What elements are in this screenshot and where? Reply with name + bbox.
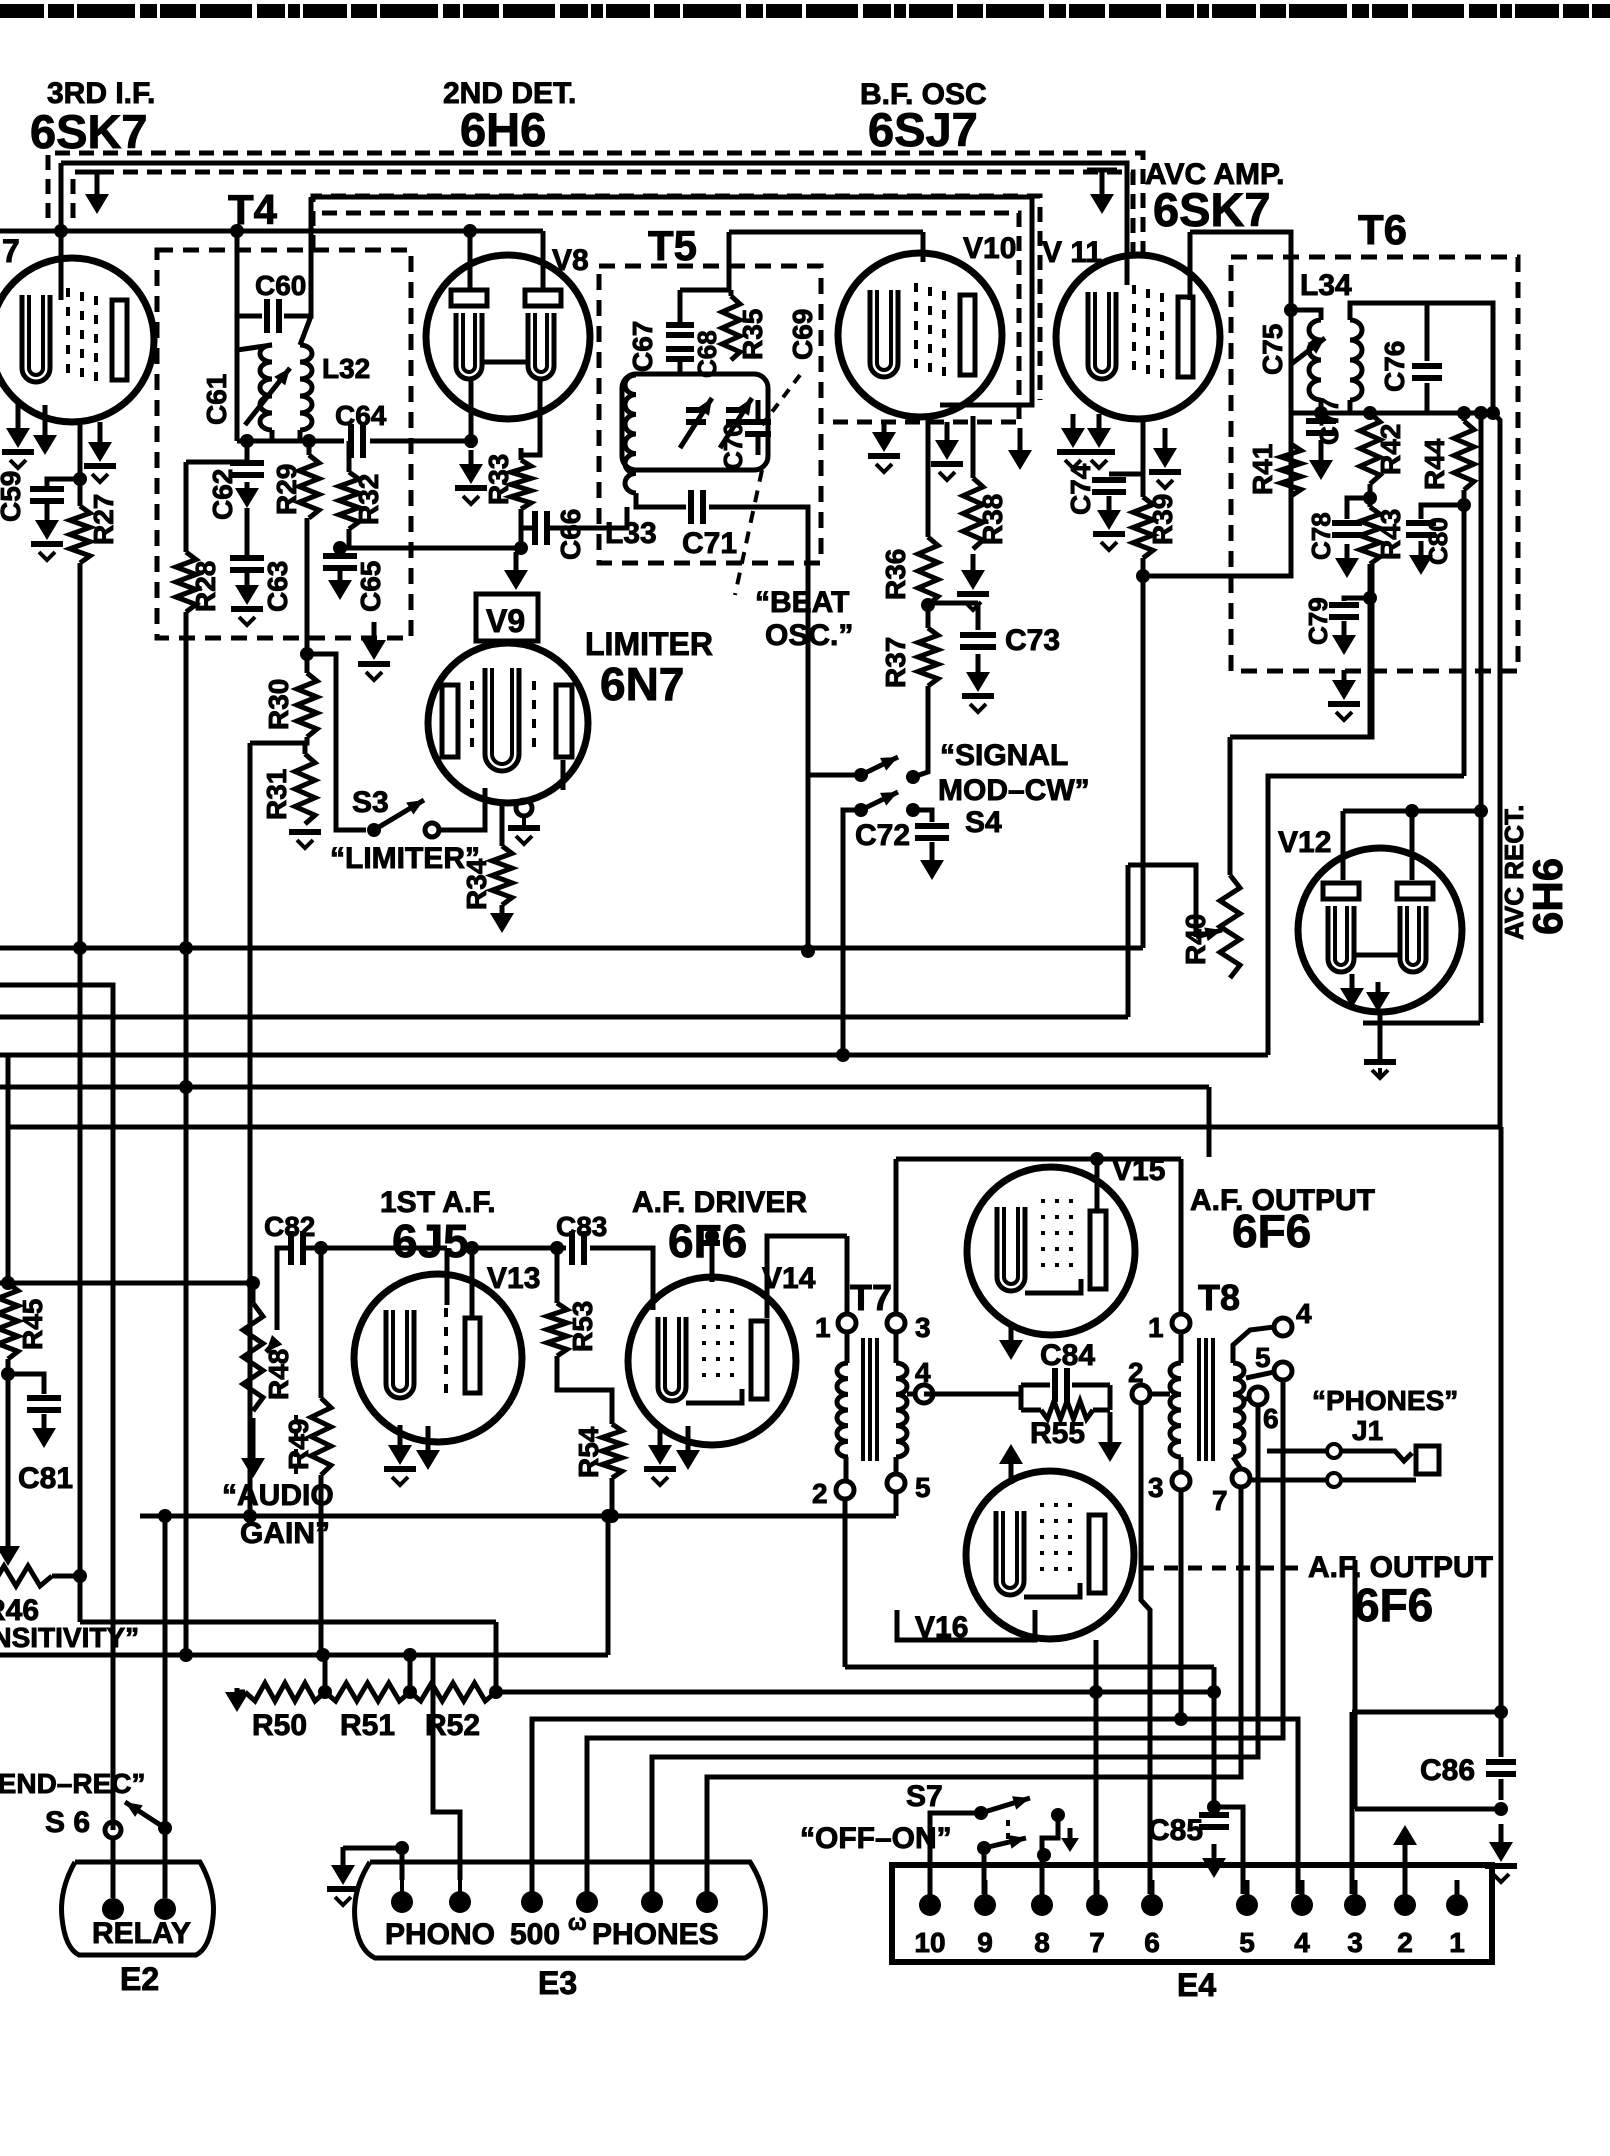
wire V7 cathode [78,422,83,479]
label C75 [1257,324,1288,375]
svg-text:2: 2 [1397,1927,1413,1958]
label C63 [262,561,293,612]
label 6J5 [392,1215,469,1267]
wire R45 bottom [6,1359,11,1374]
label C61 [201,374,232,425]
svg-text:1: 1 [1449,1927,1465,1958]
E4 pin 1 [1446,1880,1468,1916]
shield dashed bottom V10 [833,420,1019,425]
wire J1 tip [1267,1449,1328,1454]
arrow R48 bottom [241,1418,265,1478]
junction 1692 [1089,1685,1221,1699]
wire C66 to T5 [560,507,627,528]
junction R45 top [1,1276,15,1290]
svg-text:T8: T8 [1198,1277,1240,1318]
svg-text:S3: S3 [352,786,389,819]
E4 pin 2 [1394,1880,1416,1916]
audio gain line [0,1653,608,1658]
resistor R27 [70,479,90,563]
wire L32 tops [237,316,311,350]
variable cap C75 arrow [1290,338,1325,365]
arrow C81 [32,1414,56,1448]
svg-text:C86: C86 [1420,1754,1475,1787]
ground E3 [327,1847,402,1905]
inductor L32 right coil [300,345,312,430]
label C65 [355,561,386,612]
shield dashed line second [73,172,1133,258]
label T7 [850,1277,892,1318]
svg-text:RELAY: RELAY [92,1917,191,1950]
label E2 [120,1961,159,1997]
switch S4 upper contact [906,770,920,784]
svg-text:S 6: S 6 [45,1806,90,1839]
inductor T8 primary [1170,1363,1181,1457]
junction T4 plate [230,224,244,238]
J1 body [1416,1446,1439,1474]
svg-text:MOD–CW”: MOD–CW” [938,774,1090,807]
wire R41 col [1289,413,1294,444]
label A.F. OUTPUT [1190,1184,1375,1217]
wire R37 to S4 contact [913,686,928,777]
label R46 [0,1594,39,1627]
wire V12 cathode down [1378,1012,1383,1060]
arrow E4 pin2 up [1393,1825,1417,1845]
T8 pin2 circle [1132,1385,1150,1403]
svg-text:R45: R45 [17,1299,48,1350]
terminal strip E4 box [892,1865,1492,1962]
wire L32 bottoms [272,430,300,441]
label C73 [1005,624,1060,657]
svg-text:R48: R48 [263,1349,294,1400]
svg-text:C63: C63 [262,561,293,612]
wire V8 right cathode [521,379,540,455]
wire V13 grid [445,1248,450,1305]
junction S4 bus4 [836,1048,850,1062]
shield dashed line outer [48,153,1143,258]
label E4 pin 9 [977,1927,993,1958]
wire T5 top [729,230,923,235]
label L32 [322,353,370,384]
shield box T4 dashed [157,250,411,638]
svg-text:C65: C65 [355,561,386,612]
wire R50R51 up [323,1655,328,1692]
svg-text:5: 5 [915,1472,931,1503]
wire R29-R30 [305,518,310,673]
label C77 [1314,397,1344,445]
svg-text:7: 7 [1089,1927,1105,1958]
V9 bottom pin [516,800,532,816]
ground C59 [31,498,63,560]
tube V8 6H6 [426,255,590,419]
label T7 pin1 [815,1312,831,1343]
capacitor C63 [230,558,264,570]
svg-text:“SEND–REC”: “SEND–REC” [0,1768,145,1799]
arrow V11 c [1149,428,1181,488]
svg-text:C73: C73 [1005,624,1060,657]
J1 sleeve contact [1327,1473,1341,1487]
svg-text:J1: J1 [1352,1415,1383,1446]
svg-text:C70: C70 [718,422,748,470]
wire 1283 line [0,1281,253,1286]
capacitor C60 [267,299,279,333]
inductor L33 [625,375,636,493]
wire L34 right top [1350,303,1493,413]
svg-text:R27: R27 [88,494,119,545]
junction gain dots [179,1648,330,1662]
resistor R52 [410,1683,496,1701]
svg-text:7: 7 [2,233,20,269]
wire T7 pin2 lead [844,1457,849,1481]
label T4 [228,186,278,233]
node C62 top [240,434,254,448]
svg-text:S7: S7 [906,1780,943,1813]
svg-text:R41: R41 [1247,444,1278,495]
label R42 [1375,424,1406,475]
junction V8 plate feed [463,224,477,238]
switch S7 lower pivot [977,1841,991,1855]
bus line 4 [0,1053,1268,1058]
wire R51R52 up [403,1648,417,1692]
wire C83 to V14 grid [590,1248,653,1310]
capacitor C85 [1199,1815,1229,1827]
wire T6 node bus [1291,411,1493,416]
resistor R32 [339,441,359,529]
ground V13 cath b [416,1426,440,1470]
svg-text:C67: C67 [627,321,658,372]
combo right [1108,1385,1113,1410]
label R50 [252,1709,307,1742]
label R28 [190,561,221,612]
ground V13 cath a [384,1425,416,1485]
wire S7 contact to pin8 [1042,1815,1058,1894]
svg-text:C69: C69 [787,309,818,360]
wire S7 lower to pin9 [982,1848,987,1894]
T8 pin6 circle [1249,1387,1267,1405]
svg-text:C75: C75 [1257,324,1288,375]
wire sens drop [494,1622,499,1692]
label R29 [271,464,302,515]
line 1777 [707,1487,1241,1902]
wire bus3 riser [1126,865,1131,1017]
arrow near R38 top [1008,428,1032,470]
svg-text:“SENSITIVITY”: “SENSITIVITY” [0,1622,139,1653]
inductor L34 left coil [1309,320,1321,400]
capacitor C72 [913,810,949,838]
svg-text:R28: R28 [190,561,221,612]
wire pin2 arrow stem [1403,1845,1408,1894]
switch S6 contact [105,1822,121,1838]
svg-text:6N7: 6N7 [600,658,684,710]
wire T4 top feed [311,195,1032,200]
svg-text:V13: V13 [487,1262,540,1295]
svg-text:8: 8 [1034,1927,1050,1958]
resistor R50 [245,1683,325,1701]
ground arrows V12 cath [1340,974,1390,1012]
label 6H6 V12 [1524,858,1571,935]
switch S4 lower arm [861,792,898,810]
resistor R38 [963,416,983,549]
label R44 [1419,438,1450,490]
ground arrow below T4 [373,441,375,632]
dashed callout C69 [762,375,800,425]
junction R48 top [246,1276,260,1290]
label R43 [1375,509,1406,560]
switch S4 upper arm [861,757,898,775]
dashed gang link [294,1415,298,1478]
label LIMITER quoted [330,842,480,875]
label SENSITIVITY [0,1622,139,1653]
label LIMITER [585,626,713,662]
label C74 [1065,463,1096,515]
arrow C85 [1202,1844,1226,1878]
wire V7 grid inside [59,258,64,300]
label 3RD I.F. [47,77,155,110]
wire to C81 [8,1374,44,1394]
junction S4 bus1 [801,944,815,958]
ground C73 [962,654,994,712]
label PHONES [1312,1385,1458,1416]
wire V8 left cathode [469,379,474,448]
capacitor C83 [572,1231,584,1265]
label C76 [1379,341,1410,392]
wire V10 cathode to R36 [926,420,931,537]
label C64 [335,400,387,431]
wire J1 sleeve [1248,1478,1328,1483]
E3 pin 6 [696,1880,718,1913]
wire T7 pin1 lead [845,1332,850,1363]
svg-text:3: 3 [1148,1472,1164,1503]
label V16 [915,1611,968,1644]
label C66 [555,509,586,560]
wire V11 plate lead [1188,232,1193,300]
svg-text:6SK7: 6SK7 [30,105,148,158]
variable capacitor C61 arrow [245,368,290,425]
switch S7 upper contact [1051,1808,1065,1822]
arrow C86 ground [1485,1824,1517,1882]
resistor R41 [1281,444,1301,496]
svg-text:6SK7: 6SK7 [1153,183,1271,236]
ground R38 [957,554,989,610]
svg-text:V12: V12 [1278,826,1331,859]
cathode rail [140,1514,896,1519]
wire V13 plate [470,1248,475,1318]
shield dashed line fourth [322,213,1019,422]
label R40 [1180,914,1211,965]
svg-text:6H6: 6H6 [1524,858,1571,935]
T7 pin3 circle [887,1314,905,1332]
wire bus1 riser [1141,576,1146,948]
label C79 [1303,597,1333,645]
svg-text:4: 4 [915,1357,931,1388]
arrow C78 [1335,544,1359,578]
svg-text:2: 2 [1128,1357,1144,1388]
T8 core [1199,1338,1213,1461]
tube V13 6J5 [354,1274,522,1442]
E4 pin 4 [1291,1880,1313,1916]
svg-text:C72: C72 [855,819,910,852]
label C59 [0,471,26,522]
capacitor C70 [745,400,771,455]
capacitor C78 [1332,498,1370,535]
svg-text:R44: R44 [1419,438,1450,490]
capacitor C80 [1406,505,1464,535]
ground V10 cathode a [868,420,900,472]
svg-text:500: 500 [510,1918,560,1951]
shield box T6 dashed [1231,257,1518,671]
label R31 [261,769,292,820]
junction C82 R49 [314,1241,328,1255]
resistor R28 [176,462,196,612]
svg-text:“AUDIO: “AUDIO [222,1479,334,1512]
tank box T5 [622,374,768,470]
wire R43 bottom [1368,564,1373,737]
label V14 [762,1262,816,1295]
line 1692 continues [496,1690,1214,1695]
switch S6 pivot [158,1821,172,1835]
tube V11 6SK7 [1056,255,1220,419]
E3 pin 1 [391,1880,413,1913]
resistor R51 [325,1683,410,1701]
wiper arrow R40 [1196,928,1222,942]
V16 box bottom [845,1665,1214,1670]
variable cap 2 in box [720,398,752,448]
wire S4 upper pivot left [808,773,861,778]
svg-text:C59: C59 [0,471,26,522]
wire T8 pin1 riser [1179,1159,1184,1316]
label A.F. DRIVER [632,1186,807,1219]
bus line 1 [0,946,1143,951]
wire L32 left lead [235,316,240,441]
E3 pin 2 [449,1880,471,1913]
bus line 2 [0,985,113,1830]
wire V12 plate bus [1343,809,1481,814]
svg-text:“PHONES”: “PHONES” [1312,1385,1458,1416]
svg-text:E4: E4 [1177,1967,1216,2003]
label T8 pin1 [1148,1312,1164,1343]
label C71 [682,527,737,560]
label 1ST A.F. [380,1186,496,1219]
inductor T8 secondary [1233,1363,1244,1457]
capacitor C76 [1412,303,1442,413]
svg-text:L32: L32 [322,353,370,384]
wire T8 pin2 drop [1141,1403,1150,1894]
wire R30 bottom jog [250,737,307,743]
E2 pin 1 [102,1898,124,1920]
wire junction to S3 [307,654,366,830]
svg-text:R51: R51 [340,1709,395,1742]
tube V7 6SK7 [0,258,154,422]
label C82 [264,1211,315,1242]
svg-text:3: 3 [1347,1927,1363,1958]
label 500 [510,1910,587,1951]
arrow tap near V11 [1087,170,1117,214]
label AVC RECT. [1499,805,1529,940]
svg-text:R30: R30 [263,679,294,730]
label T6 [1358,206,1407,253]
svg-text:9: 9 [977,1927,993,1958]
ground below T6 [1328,670,1360,720]
label T8 pin4 [1296,1298,1312,1329]
junction R36 R37 [921,598,935,612]
svg-text:1: 1 [815,1312,831,1343]
wire R44 down [1462,510,1467,776]
shield box T5 dashed [599,266,821,563]
label C69 [787,309,818,360]
wire gain riser [606,1516,611,1655]
svg-text:6F6: 6F6 [1232,1205,1311,1257]
ground C63 arrow [231,571,263,625]
ground V12 [1364,1062,1396,1078]
svg-text:R37: R37 [880,637,911,688]
junction C81 tap [1,1367,15,1381]
label E4 pin 5 [1239,1927,1255,1958]
label S3 [352,786,389,819]
svg-text:V14: V14 [762,1262,816,1295]
resistor R29 [299,441,319,518]
wire V11 grid [1125,262,1130,285]
wire plate line to C83 [472,1246,566,1251]
wire V12 right plate [1410,811,1415,880]
terminal strip E3 box [355,1862,766,1958]
label E4 pin 2 [1397,1927,1413,1958]
label R30 [263,679,294,730]
label R55 [1030,1417,1085,1450]
terminal strip E2 box [62,1862,214,1955]
svg-text:“SIGNAL: “SIGNAL [940,739,1068,772]
resistor R33 [511,448,531,509]
label V12 [1278,826,1331,859]
label T7 pin3 [915,1312,931,1343]
wire V9 plate down [561,760,566,790]
junction C85 [1207,1800,1221,1814]
svg-text:R54: R54 [573,1426,604,1478]
svg-text:R49: R49 [283,1419,314,1470]
wire R55 riser [1094,1640,1099,1905]
svg-text:6SJ7: 6SJ7 [868,103,978,156]
label T8 pin7 [1212,1485,1228,1516]
wire C85 drop [1212,1667,1217,1807]
resistor R34 [492,846,512,905]
label E4 pin 4 [1294,1927,1310,1958]
junction C86 top [1494,1705,1508,1719]
label L34 [1300,269,1352,302]
svg-text:T6: T6 [1358,206,1407,253]
junction C76 node [1486,406,1500,420]
label R37 [880,637,911,688]
wire down x250 [243,743,257,1523]
ground arrow V7 cathode b [33,405,57,455]
small arrow S7 [1061,1828,1079,1852]
label C80 [1423,517,1453,565]
label T8 pin3 [1148,1472,1164,1503]
E4 pin 6 [1141,1880,1163,1916]
label T7 pin5 [915,1472,931,1503]
svg-text:PHONES: PHONES [592,1918,719,1951]
label R45 [17,1299,48,1350]
svg-text:V 11: V 11 [1042,236,1102,269]
capacitor C59 [30,489,64,501]
label R51 [340,1709,395,1742]
label S6 [45,1806,90,1839]
switch S4 lower pivot [854,803,868,817]
capacitor C73 [960,603,996,647]
label R49 [283,1419,314,1470]
E4 pin 7 [1086,1880,1108,1916]
wire to C59 [47,479,80,486]
arrow into R48 [266,1335,282,1352]
T8 pin4 circle [1274,1318,1292,1336]
wire C86 bottom [1499,1779,1504,1800]
